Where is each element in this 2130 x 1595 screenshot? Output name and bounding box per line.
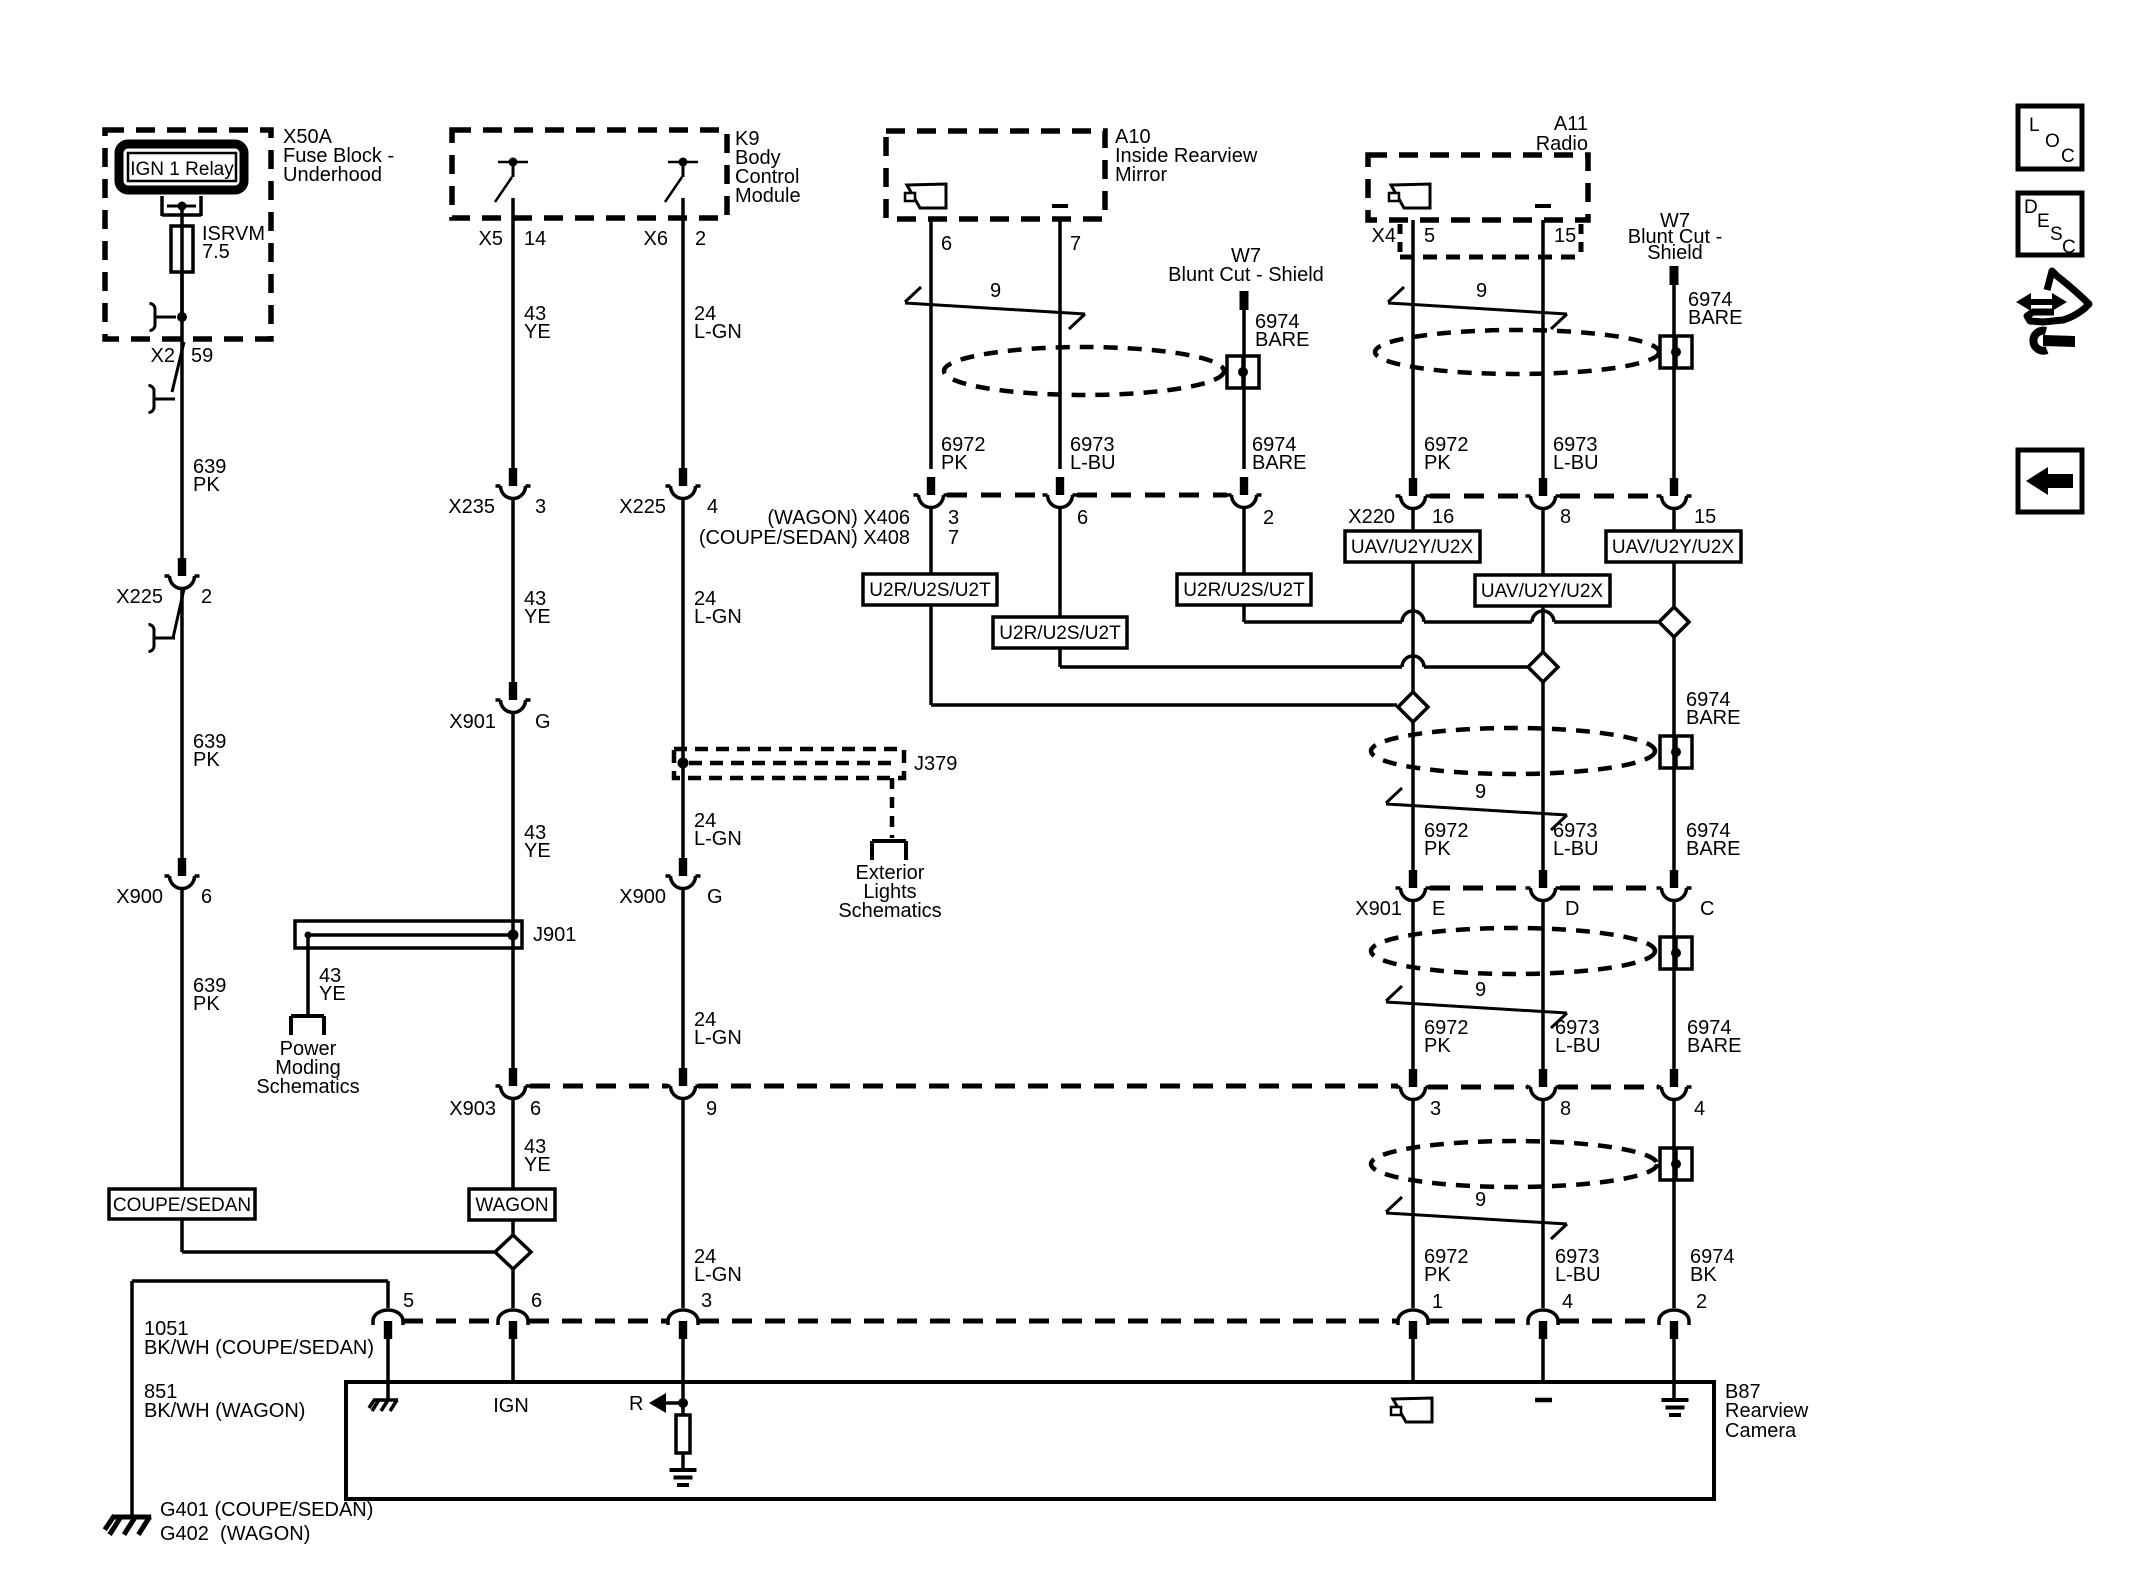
svg-text:Underhood: Underhood [283,164,382,186]
connector X220 pin 8 [1526,478,1561,509]
connector X900 pin G [619,858,722,908]
wire 43 YE (segment 2) [511,500,515,682]
svg-text:8: 8 [1560,1098,1571,1120]
off-page bracket (power moding) [291,1016,324,1035]
pin label 15 (A11) [1554,225,1576,247]
A10 minus terminal [1052,204,1068,208]
BCM output switch (X6) [665,158,698,203]
inside rearview mirror A10 (dashed outline) [886,131,1105,219]
connector row X901 dashed line [1430,886,1657,891]
wire label 6973 L-BU (lower right) [1555,1246,1601,1286]
wire 6973 L-BU to U2R box [1058,509,1062,617]
svg-text:L-GN: L-GN [694,1264,742,1286]
twist indicator 9 (lower right) [1386,1197,1567,1239]
svg-text:PK: PK [1424,452,1451,474]
wire label 6974 BARE (W7 right) [1688,289,1742,329]
connector row X406/X408 dashed line [947,493,1227,498]
camera connector pin 4 [1528,1291,1573,1339]
svg-text:9: 9 [1475,979,1486,1001]
ground label G401 G402 [160,1499,373,1545]
svg-text:4: 4 [1694,1098,1705,1120]
A11 camera icon [1389,184,1430,208]
earth ground inside camera (pin 2) [1662,1400,1689,1415]
off-page bracket (exterior lights) [872,841,906,860]
svg-text:X6: X6 [644,228,668,250]
wire A11 pin 5 6972 PK [1411,220,1415,478]
wire splice to camera pin 6 [511,1269,515,1308]
wire label 1051 BK/WH (COUPE/SEDAN) [144,1318,374,1359]
wire pin2 into camera [1672,1339,1676,1400]
wire 639 PK (segment 3) [180,890,184,1189]
hop (BARE bus over L-BU wire) [1532,611,1554,622]
svg-text:COUPE/SEDAN: COUPE/SEDAN [113,1195,251,1216]
svg-text:6: 6 [1077,507,1088,529]
svg-text:BARE: BARE [1688,307,1742,329]
connector label X901 E D C [1355,898,1714,920]
svg-text:X2: X2 [151,345,175,367]
option box U2R/U2S/U2T (PK) [863,574,997,605]
terminal hook below X2 [149,386,176,413]
wire label 43 YE (4) [524,1136,551,1176]
svg-text:Camera: Camera [1725,1420,1797,1442]
svg-text:X235: X235 [448,496,495,518]
pin label 7 (A10) [1070,233,1081,255]
shield termination box on wire 6974 (A11) [1660,336,1692,368]
svg-text:D: D [1565,898,1579,920]
fuse block X50A label [283,126,394,186]
camera connector pin 6 [498,1290,542,1339]
svg-text:A11: A11 [1554,113,1588,135]
wire label 639 PK (2) [193,731,226,771]
svg-text:YE: YE [524,606,551,628]
svg-text:PK: PK [193,749,220,771]
A11 minus terminal [1535,204,1551,208]
connector X901 pin E [1396,870,1431,901]
twist label 9 (middle right) [1475,979,1486,1001]
svg-text:X225: X225 [619,496,666,518]
svg-text:3: 3 [1430,1098,1441,1120]
twist label 9 (upper right) [1475,781,1486,803]
wire A11 pin 15 6973 L-BU [1541,220,1545,478]
wire 15 to UAV box [1672,510,1676,531]
wire label 24 L-GN (1) [694,303,742,343]
wire 24 L-GN (segment 2) [681,500,685,859]
svg-text:X225: X225 [116,586,163,608]
A10 camera icon [905,184,946,208]
svg-text:Rearview: Rearview [1725,1400,1809,1422]
svg-text:UAV/U2Y/U2X: UAV/U2Y/U2X [1612,537,1734,558]
wire L-BU right column [1541,606,1545,871]
wire J901 branch to power moding [306,935,310,1016]
svg-text:YE: YE [524,840,551,862]
svg-text:BK/WH (WAGON): BK/WH (WAGON) [144,1400,305,1422]
radio connector X4 dashed sub-box [1400,224,1581,257]
shield termination box on wire 6974 (A10) [1227,356,1259,388]
fuse block X50A (dashed outline) [105,130,271,339]
shield termination box on wire 6974 (upper right) [1660,736,1692,768]
svg-text:C: C [2062,237,2076,258]
wire L-BU to splice bus [1060,648,1527,667]
wire COUPE/SEDAN to splice [182,1219,496,1252]
DESC button [2018,193,2082,258]
wire label 24 L-GN (2) [694,588,742,628]
svg-text:L-GN: L-GN [694,321,742,343]
connector X903 pin 4 [1657,1069,1706,1120]
svg-text:(COUPE/SEDAN) X408: (COUPE/SEDAN) X408 [699,527,910,549]
wire label 851 BK/WH (WAGON) [144,1381,305,1422]
power moding schematics label [256,1038,359,1098]
wire A10 pin 7 6973 L-BU [1058,219,1062,469]
twisted pair ellipse (A10 circuit) [944,347,1224,395]
pin label X6 2 [644,228,707,250]
svg-text:3: 3 [948,507,959,529]
wire 6974 BARE (W7 right) [1672,285,1676,478]
wire pin6 into camera [511,1339,515,1382]
twisted pair ellipse (upper right) [1371,728,1655,774]
wire L-BU X903 to camera [1541,1101,1545,1308]
wire 6972 PK to U2R box [929,509,933,574]
svg-text:4: 4 [707,496,718,518]
hop (BARE bus over PK wire) [1402,611,1424,622]
terminal hook below X225 [149,625,176,652]
svg-text:16: 16 [1432,506,1454,528]
svg-text:BARE: BARE [1255,329,1309,351]
option box UAV/U2Y/U2X (BARE) [1606,531,1741,562]
svg-text:59: 59 [191,345,213,367]
svg-text:YE: YE [524,321,551,343]
connector X225 pin 4 [619,468,718,518]
connector X406/X408 pin 6 [1043,477,1078,507]
svg-text:2: 2 [695,228,706,250]
svg-text:U2R/U2S/U2T: U2R/U2S/U2T [1183,580,1305,601]
svg-text:Radio: Radio [1536,133,1588,155]
svg-text:PK: PK [193,474,220,496]
svg-text:G401 (COUPE/SEDAN): G401 (COUPE/SEDAN) [160,1499,373,1521]
camera connector pin 3 [668,1290,712,1339]
svg-text:9: 9 [1475,781,1486,803]
svg-text:L-GN: L-GN [694,606,742,628]
camera connector pin 2 [1659,1291,1707,1339]
pin label X5 14 [479,228,547,250]
svg-text:2: 2 [201,586,212,608]
wire label 6972 PK (A11) [1424,434,1469,474]
wire label 43 YE (3) [524,822,551,862]
connector row X220 dashed line [1430,494,1657,499]
svg-text:Shield: Shield [1647,242,1703,264]
wire label 6973 L-BU (A10) [1070,434,1116,474]
svg-text:(WAGON) X406: (WAGON) X406 [767,507,910,529]
svg-text:BARE: BARE [1686,838,1740,860]
svg-text:9: 9 [1475,1189,1486,1211]
radio A11 label [1536,113,1588,155]
terminal hook at X2 [150,304,188,331]
svg-text:IGN 1 Relay: IGN 1 Relay [130,159,234,180]
wire PK X901 to X903 [1411,902,1415,1069]
wire label 24 L-GN (3) [694,810,742,850]
svg-text:L-GN: L-GN [694,1027,742,1049]
connector X903 pin 9 [666,1068,718,1120]
wire PK X903 to camera [1411,1101,1415,1308]
svg-text:E: E [1432,898,1445,920]
twist indicator 9 (A11) [1388,280,1567,329]
wire BARE X901 to X903 [1672,902,1676,1069]
earth ground below resistor [670,1470,697,1485]
wire relay to fuse [180,206,184,320]
connector X220 pin 15 [1657,478,1692,509]
svg-text:15: 15 [1554,225,1576,247]
svg-text:O: O [2045,131,2060,152]
hop (L-BU bus over PK wire) [1402,656,1424,667]
svg-text:PK: PK [1424,838,1451,860]
svg-text:BARE: BARE [1686,707,1740,729]
option box UAV/U2Y/U2X (PK) [1345,531,1480,562]
svg-text:15: 15 [1694,506,1716,528]
rearview camera B87 outline [346,1382,1714,1499]
wire label 639 PK (3) [193,975,226,1015]
wire fuse to terminal junction [180,272,184,317]
svg-text:G: G [535,711,551,733]
wire label 6973 L-BU (A11) [1553,434,1599,474]
wire label 43 YE (1) [524,303,551,343]
WAGON option box [469,1189,555,1220]
IGN terminal label [493,1395,529,1417]
wire label 43 YE (branch) [319,965,346,1005]
svg-text:7: 7 [1070,233,1081,255]
wire 639 PK (segment 2) [180,590,184,859]
svg-text:Mirror: Mirror [1115,164,1168,186]
wire 16 to UAV box [1411,510,1415,531]
body control module K9 label [735,128,801,207]
svg-text:X901: X901 [1355,898,1402,920]
svg-text:8: 8 [1560,506,1571,528]
connector X903 pin 6 [449,1068,541,1120]
wire 24 L-GN (segment 3) [681,890,685,1068]
fuse ISRVM 7.5 [171,223,265,272]
wire A10 pin 6 6972 PK [929,219,933,469]
connector row X903 dashed bus [530,1086,1659,1087]
svg-text:6: 6 [201,886,212,908]
back arrow button [2018,450,2082,512]
connector X903 pin 8 [1526,1069,1572,1120]
camera connector pin 1 [1398,1291,1443,1339]
svg-text:L-BU: L-BU [1553,452,1599,474]
wire pin1 into camera [1411,1339,1415,1382]
wire to connector X2 [180,317,184,344]
connector X220 pin 16 [1396,478,1431,509]
wire label 24 L-GN (5) [694,1246,742,1286]
svg-text:3: 3 [535,496,546,518]
svg-text:YE: YE [524,1154,551,1176]
wire 8 to UAV box [1541,510,1545,575]
svg-text:X4: X4 [1372,225,1396,247]
shield termination box on wire 6974 (lower right) [1660,1148,1692,1180]
svg-text:X901: X901 [449,711,496,733]
svg-text:PK: PK [941,452,968,474]
minus terminal inside B87 [1535,1398,1552,1403]
svg-text:BK: BK [1690,1264,1717,1286]
svg-text:5: 5 [403,1290,414,1312]
wire label 6974 BARE (mid right) [1686,689,1740,729]
svg-text:Module: Module [735,185,801,207]
connector X406/X408 pin 2 [1227,477,1262,507]
wire label 639 PK (1) [193,456,226,496]
LOC button [2018,106,2082,169]
wire PK right column [1411,562,1415,871]
wire label 24 L-GN (4) [694,1009,742,1049]
radio A11 (dashed outline) [1368,155,1588,220]
twisted pair ellipse (A11 radio circuit) [1375,330,1659,374]
connector X900 pin 6 (left column) [116,858,212,908]
twist indicator 9 (A10) [905,280,1085,329]
splice diamond (BARE) [1659,607,1689,637]
svg-text:X900: X900 [619,886,666,908]
svg-text:G402 (WAGON): G402 (WAGON) [160,1523,310,1545]
camera connector dashed row [403,1319,1658,1324]
wire label 6972 PK (middle right) [1424,1017,1469,1057]
BCM output switch (X5) [495,158,528,203]
option box U2R/U2S/U2T (L-BU) [993,617,1127,648]
wire X5-14 43 YE (segment 1) [511,198,515,469]
inside rearview mirror A10 label [1115,126,1258,186]
wire BARE right column [1672,562,1676,871]
wire label 6974 BARE (W7 left) [1255,311,1309,351]
chassis ground inside camera (pin 5) [369,1399,398,1411]
wire label 6972 PK (upper right) [1424,820,1469,860]
svg-text:5: 5 [1424,225,1435,247]
svg-text:2: 2 [1696,1291,1707,1313]
svg-text:D: D [2024,197,2038,218]
wire label 6974 BARE (upper right) [1686,820,1740,860]
svg-text:IGN: IGN [493,1395,529,1417]
twisted pair ellipse (middle right) [1371,928,1655,974]
twist indicator 9 (upper right) [1386,788,1567,830]
wire PK to splice bus [931,605,1397,705]
connector X901 pin C [1657,870,1692,901]
COUPE/SEDAN option box [109,1189,255,1219]
blunt cut W7 (left) [1168,245,1324,310]
camera connector pin 5 [373,1290,414,1339]
splice diamond (L-BU) [1528,652,1558,682]
twisted pair ellipse (lower right) [1371,1141,1657,1187]
splice pack J901 [295,921,576,948]
shield termination box on wire 6974 (middle right) [1660,937,1692,969]
svg-text:UAV/U2Y/U2X: UAV/U2Y/U2X [1351,537,1473,558]
svg-text:Blunt Cut - Shield: Blunt Cut - Shield [1168,264,1324,286]
svg-text:UAV/U2Y/U2X: UAV/U2Y/U2X [1481,581,1603,602]
svg-text:BK/WH (COUPE/SEDAN): BK/WH (COUPE/SEDAN) [144,1337,374,1359]
chassis ground G401/G402 [105,1515,151,1534]
wire 639 PK (segment 1) [180,344,184,559]
wire label 6973 L-BU (upper right) [1553,820,1599,860]
twist label 9 (lower right) [1475,1189,1486,1211]
svg-text:PK: PK [1424,1264,1451,1286]
svg-text:L-GN: L-GN [694,828,742,850]
exterior lights schematics label [838,862,941,922]
wire 6974 BARE (W7 left) [1242,310,1246,469]
svg-text:U2R/U2S/U2T: U2R/U2S/U2T [999,623,1121,644]
svg-text:PK: PK [1424,1035,1451,1057]
svg-text:J901: J901 [533,924,576,946]
svg-text:Schematics: Schematics [256,1076,359,1098]
connector X235 pin 3 [448,468,546,518]
svg-text:C: C [1700,898,1714,920]
svg-text:9: 9 [1476,280,1487,302]
connector label (WAGON) X406 / (COUPE/SEDAN) X408 [699,507,1274,549]
wire pin5 into camera [386,1339,390,1400]
wire L-BU X901 to X903 [1541,902,1545,1069]
option box UAV/U2Y/U2X (L-BU) [1475,575,1610,606]
connector X406/X408 pin 3/7 [914,477,949,507]
svg-text:R: R [629,1393,643,1415]
svg-text:4: 4 [1562,1291,1573,1313]
svg-text:7.5: 7.5 [202,241,230,263]
wire WAGON to splice [511,1220,515,1236]
pin label X4 5 [1372,225,1436,247]
svg-text:L: L [2029,115,2040,136]
splice diamond (IGN feed) [495,1235,531,1269]
svg-text:Schematics: Schematics [838,900,941,922]
splice diamond (PK) [1398,692,1428,722]
connector X901 pin G (left) [449,682,550,733]
svg-text:6: 6 [941,233,952,255]
wire BK X903 to camera [1672,1101,1676,1308]
dashed wire J379 to exterior lights [890,778,895,838]
ground wire 1051/851 BK-WH [132,1281,388,1517]
svg-text:6: 6 [531,1290,542,1312]
connector X903 pin 3 [1396,1069,1442,1120]
connector X901 pin D [1526,870,1561,901]
twist indicator 9 (middle right) [1386,986,1567,1028]
svg-text:G: G [707,886,723,908]
wire BARE to splice bus [1244,605,1658,622]
svg-text:S: S [2050,224,2063,245]
svg-text:U2R/U2S/U2T: U2R/U2S/U2T [869,580,991,601]
svg-text:9: 9 [990,280,1001,302]
svg-text:L-BU: L-BU [1555,1035,1601,1057]
svg-text:2: 2 [1263,507,1274,529]
svg-text:14: 14 [524,228,546,250]
resistor (camera R termination) [676,1403,690,1470]
svg-text:BARE: BARE [1252,452,1306,474]
wire pin3 into camera [681,1339,685,1402]
svg-text:3: 3 [701,1290,712,1312]
svg-text:BARE: BARE [1687,1035,1741,1057]
wire label 6973 L-BU (middle right) [1555,1017,1601,1057]
connector label X220 [1348,506,1716,528]
svg-text:X903: X903 [449,1098,496,1120]
svg-text:9: 9 [706,1098,717,1120]
svg-text:J379: J379 [914,753,957,775]
svg-text:WAGON: WAGON [475,1195,548,1216]
wire label 6974 BARE (middle right) [1687,1017,1741,1057]
relay contact symbol [162,196,201,216]
R output arrow [629,1393,688,1415]
wire 43 YE (segment 4) [511,1100,515,1189]
svg-text:L-BU: L-BU [1555,1264,1601,1286]
svg-text:X900: X900 [116,886,163,908]
blunt cut W7 (right) [1628,210,1722,285]
svg-text:L-BU: L-BU [1070,452,1116,474]
wire label 6974 BK (lower right) [1690,1246,1735,1286]
svg-text:C: C [2061,146,2075,167]
body control module K9 (dashed outline) [452,130,727,218]
svg-text:L-BU: L-BU [1553,838,1599,860]
svg-text:YE: YE [319,983,346,1005]
splice J379 (dashed junction box) [674,749,957,778]
wire X6-2 24 L-GN (segment 1) [681,198,685,469]
camera icon inside B87 [1391,1398,1432,1422]
connector X2 pin 59 (inline slash) [151,342,214,392]
